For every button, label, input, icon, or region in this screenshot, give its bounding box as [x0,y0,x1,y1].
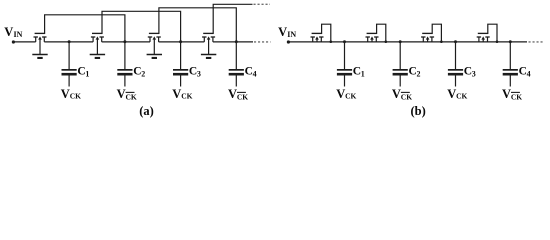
capacitor C4 (b) [503,41,518,86]
label V_CK 4 (b) [502,87,522,102]
svg-text:4: 4 [527,70,531,79]
svg-text:CK: CK [401,93,412,102]
label C4 (a) [245,66,257,79]
svg-text:V: V [4,25,13,39]
svg-text:V: V [392,87,401,101]
label C2 (b) [409,66,421,79]
bulk stem M4 (b) [482,39,484,42]
label V_CK 4 (a) [228,87,248,102]
label C1 (a) [77,66,89,79]
svg-text:3: 3 [472,70,476,79]
node 4 junction dot (a) [235,40,238,43]
ground (bulk of M3) (a) [147,39,162,59]
capacitor C2 (b) [393,41,408,86]
svg-text:1: 1 [85,70,89,79]
svg-text:(b): (b) [411,104,426,118]
node 1 junction dot (a) [68,40,71,43]
transistor M1 (a) [34,33,47,42]
svg-text:CK: CK [345,92,356,101]
label C3 (b) [464,66,476,79]
svg-text:V: V [336,87,345,101]
capacitor C3 (a) [173,41,188,86]
ground (bulk of M4) (a) [201,39,216,59]
svg-text:CK: CK [70,92,81,101]
svg-text:CK: CK [511,93,522,102]
svg-text:V: V [228,87,237,101]
junction dot loop M1 (b) [330,40,333,43]
wire diode loop gate-to-drain M1 (b) [322,24,331,42]
label C4 (b) [519,66,531,79]
svg-text:V: V [61,87,70,101]
svg-text:IN: IN [14,30,23,39]
wire main rail dotted continuation (b) [529,41,545,43]
svg-text:3: 3 [197,70,201,79]
transistor M3 (b) [421,33,434,42]
node 2 junction dot (a) [123,40,126,43]
wire main rail segment 1 (a) [44,41,93,43]
svg-text:V: V [447,87,456,101]
label V_CK 2 (b) [392,87,412,102]
capacitor C4 (a) [229,41,244,86]
wire main rail dotted continuation (a) [254,41,271,43]
wire gate route M4 (a) [213,4,252,34]
label C3 (a) [189,66,201,79]
transistor M4 (b) [477,33,490,42]
node 3 junction dot (b) [454,40,457,43]
svg-text:CK: CK [456,92,467,101]
capacitor C1 (b) [337,41,352,86]
svg-text:V: V [172,87,181,101]
ground (bulk of M2) (a) [90,39,105,59]
input terminal dot (a) [12,40,15,43]
bulk stem M2 (b) [371,39,373,42]
svg-text:4: 4 [253,70,257,79]
label V_CK 1 (a) [61,87,81,101]
wire gate route M1 to node 2 (a) [45,15,125,42]
transistor M2 (a) [91,33,104,42]
transistor M3 (a) [148,33,161,42]
capacitor C2 (a) [117,41,132,86]
svg-text:V: V [502,87,511,101]
junction dot loop M3 (b) [440,40,443,43]
bulk stem M3 (b) [427,39,429,42]
caption (a) [139,104,154,118]
label V_CK 2 (a) [117,87,137,102]
wire diode loop gate-to-drain M4 (b) [488,24,497,42]
svg-text:V: V [278,25,287,39]
transistor M4 (a) [202,33,215,42]
transistor M2 (b) [366,33,379,42]
label V_CK 1 (b) [336,87,356,101]
svg-text:CK: CK [237,93,248,102]
ground (bulk of M1) (a) [32,39,47,59]
node 4 junction dot (b) [509,40,512,43]
wire main rail segment 4 (a) [213,41,253,43]
transistor M1 (b) [311,33,324,42]
label V_CK 3 (a) [172,87,192,101]
label C2 (a) [133,66,145,79]
svg-text:CK: CK [181,92,192,101]
wire main rail segment 2 (a) [102,41,150,43]
junction dot loop M4 (b) [496,40,499,43]
node 3 junction dot (a) [179,40,182,43]
input terminal dot (b) [287,40,290,43]
svg-text:2: 2 [141,70,145,79]
wire diode loop gate-to-drain M2 (b) [377,24,386,42]
label V_IN (b) [278,25,296,39]
node 1 junction dot (b) [343,40,346,43]
junction dot loop M2 (b) [385,40,388,43]
svg-text:V: V [117,87,126,101]
svg-text:(a): (a) [139,104,154,118]
label C1 (b) [353,66,365,79]
wire gate route dotted continuation (a) [254,3,271,5]
caption (b) [411,104,426,118]
wire main rail segment 3 (a) [159,41,205,43]
wire gate route M3 to node 4 (a) [159,8,236,42]
label V_IN (a) [4,25,22,39]
label V_CK 3 (b) [447,87,467,101]
node 2 junction dot (b) [399,40,402,43]
wire gate route M2 to node 3 (a) [102,11,181,42]
wire main rail segment 0 (a) [13,41,35,43]
wire main rail (b) [288,41,527,43]
wire diode loop gate-to-drain M3 (b) [432,24,441,42]
capacitor C1 (a) [62,41,77,86]
capacitor C3 (b) [448,41,463,86]
svg-text:1: 1 [361,70,365,79]
svg-text:2: 2 [417,70,421,79]
bulk stem M1 (b) [316,39,318,42]
svg-text:CK: CK [126,93,137,102]
svg-text:IN: IN [287,30,296,39]
